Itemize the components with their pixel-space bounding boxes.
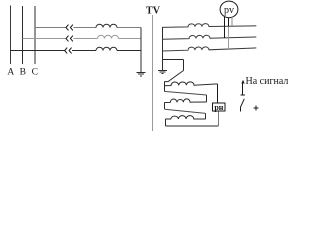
svg-text:TV: TV [146,6,161,17]
wire open-delta top right drop [183,59,185,70]
wire PV lead 1 [224,17,226,38]
svg-text:На сигнал: На сигнал [246,76,289,87]
wire diagonal W2-W3 [165,109,206,113]
wire phase1 switch-to-coil [73,27,96,29]
contact blade [240,99,244,108]
wire TV primary common down-lead [140,28,142,73]
bus B [22,6,24,64]
wire phase2 switch-to-coil [73,38,97,40]
wire W1 left vertical [163,82,165,92]
signal arrow head [241,80,244,84]
contact fixed tick [240,94,245,96]
wire PV lead 2 lower [228,26,230,49]
signal arrow shaft / contact fixed lead [242,83,244,95]
wire W2 right vertical [206,95,208,102]
svg-text:A: A [7,68,14,78]
wire phase1 bus-to-switch [35,27,66,29]
svg-text:B: B [20,68,26,78]
wire phase2 coil-to-TV [119,38,142,40]
secondary star bus down-lead [162,27,164,71]
disconnector chevrons phase3 [65,48,72,54]
reactor coil phase3 [96,47,117,50]
svg-text:pv: pv [224,5,234,16]
wire phase3 coil-to-TV [117,50,141,52]
svg-text:C: C [32,68,38,78]
wire secondary phase1 with winding [162,24,256,28]
ground secondary star point [158,71,167,74]
wire relay KV bottom lead [218,111,220,126]
wire W2 left vertical [164,103,166,110]
wire open-delta neutral stub [163,59,184,70]
winding W1 of open delta [164,82,217,86]
wire PV lead 2 upper [228,18,230,27]
wire diagonal W1-W2 [164,91,206,95]
wire secondary phase3 with winding [162,47,256,51]
wire PV lead 3 [231,17,233,26]
wire W1 to relay KV [217,84,219,103]
wire phase3 switch-to-coil [72,50,96,52]
transformer core line [152,15,154,131]
relay KV box [213,103,225,111]
wire secondary phase2 with winding [162,35,256,39]
svg-text:рн: рн [214,103,223,112]
reactor coil phase2 [98,35,119,38]
bus A [10,6,12,65]
wire phase2 bus-to-switch [23,38,66,40]
wire diagonal to winding W1 [164,71,183,82]
disconnector chevrons phase2 [66,36,73,42]
winding W2 of open delta [165,99,207,103]
voltmeter PV circle [220,1,238,18]
wire W3 right vertical [205,113,207,119]
ground primary side [137,73,146,76]
contact bottom lead [239,108,241,112]
wire W3 left vertical [164,119,166,126]
wire open-delta bottom [165,125,218,127]
disconnector chevrons phase1 [66,25,73,31]
wire phase1 coil-to-TV [117,27,141,29]
reactor coil phase1 [96,24,117,27]
plus terminal [254,106,259,111]
wire phase3 bus-to-switch [11,50,65,52]
bus C [34,6,36,64]
winding W3 of open delta [165,116,205,119]
